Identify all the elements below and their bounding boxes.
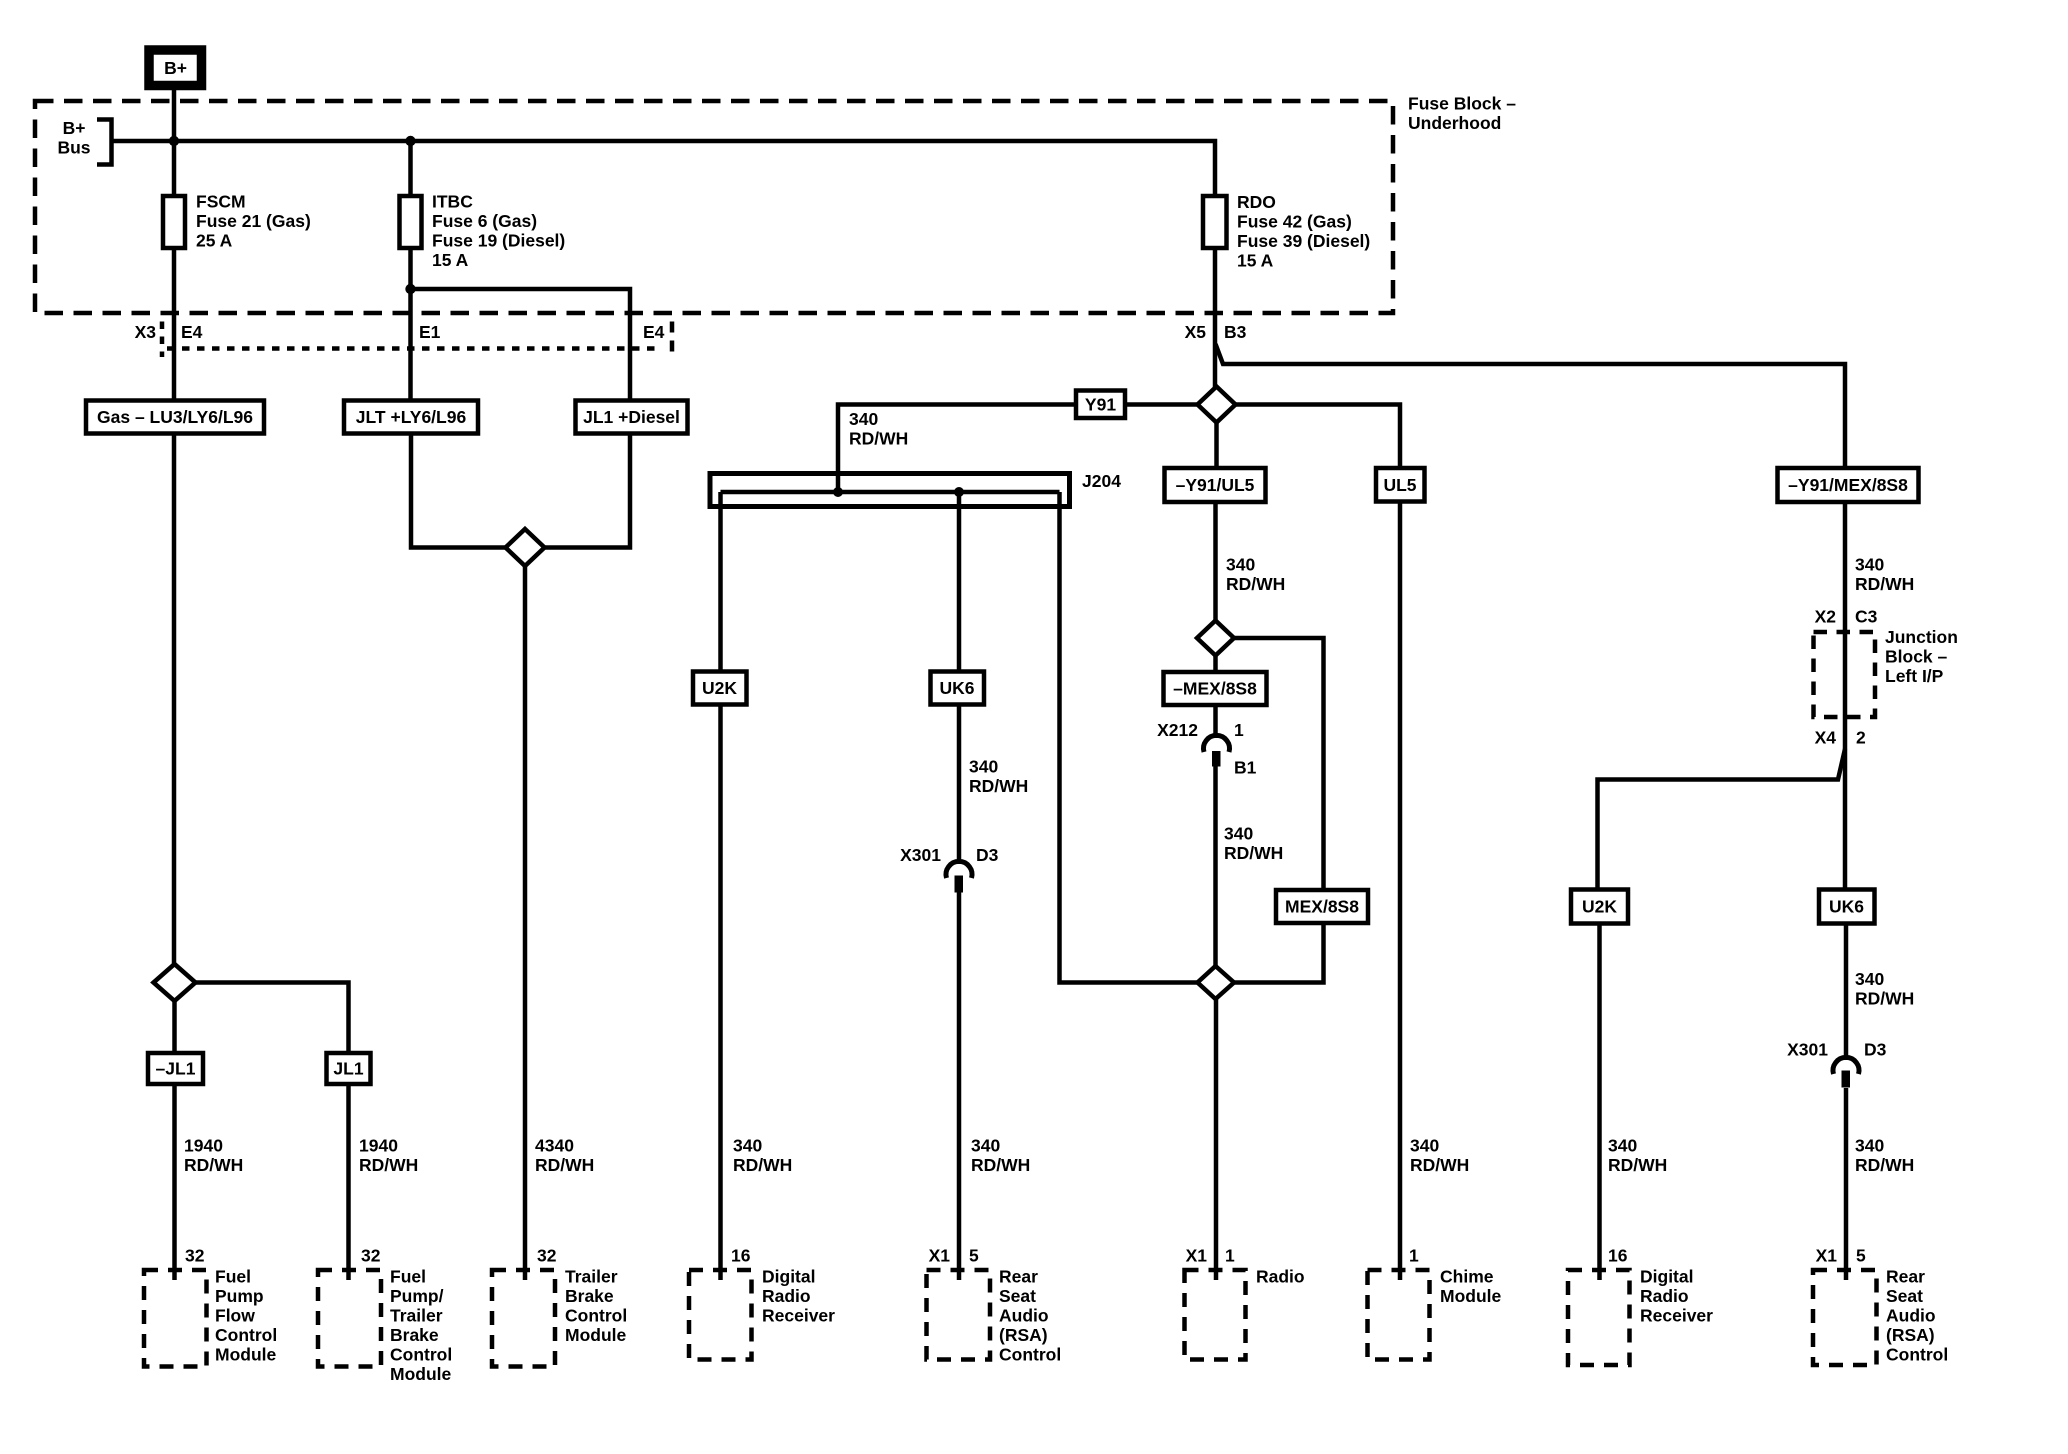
fuse block underhood enclosure (dashed) xyxy=(35,101,1393,313)
label 340 RD/WH xyxy=(1855,555,1914,595)
svg-text:Control: Control xyxy=(999,1345,1061,1365)
module Trailer Brake Control Module (dashed) xyxy=(492,1270,555,1367)
svg-text:Rear: Rear xyxy=(999,1267,1038,1287)
label 1940 RD/WH xyxy=(184,1136,243,1176)
label 4340 RD/WH xyxy=(535,1136,594,1176)
svg-text:Junction: Junction xyxy=(1885,627,1958,647)
splice diamond (trailer) xyxy=(506,529,545,566)
svg-text:RD/WH: RD/WH xyxy=(1855,989,1914,1009)
option label JL1 xyxy=(327,1053,371,1084)
svg-text:32: 32 xyxy=(185,1246,205,1266)
svg-text:Digital: Digital xyxy=(762,1267,815,1287)
wire S2 to -MEX/8S8 xyxy=(1213,656,1218,673)
splice diamond S3 xyxy=(1198,966,1235,999)
junction block - left I/P (dashed) xyxy=(1814,632,1876,717)
wire S4 to JL1 xyxy=(196,983,349,1054)
wire X301 to Rear Seat Audio control xyxy=(1844,1088,1849,1280)
svg-text:15 A: 15 A xyxy=(432,250,469,270)
module Digital Radio Receiver (dashed) xyxy=(1568,1270,1630,1365)
svg-text:Radio: Radio xyxy=(1640,1286,1689,1306)
wire JLT option to trailer splice xyxy=(411,434,506,548)
svg-text:Flow: Flow xyxy=(215,1306,255,1326)
label Trailer Brake Control Module xyxy=(565,1267,627,1346)
svg-text:JL1: JL1 xyxy=(333,1059,363,1079)
svg-text:340: 340 xyxy=(1410,1136,1439,1156)
fuse ITBC Fuse 6/19 15 A xyxy=(400,196,422,248)
svg-text:Seat: Seat xyxy=(999,1286,1036,1306)
wire branch X4 pin 2 to U2K xyxy=(1598,749,1846,890)
label Fuel Pump Flow Control Module xyxy=(215,1267,277,1365)
svg-text:RD/WH: RD/WH xyxy=(1226,574,1285,594)
option label U2K xyxy=(1571,890,1628,924)
svg-text:Module: Module xyxy=(390,1364,452,1384)
wire S2 to MEX/8S8 branch xyxy=(1234,638,1324,890)
svg-text:340: 340 xyxy=(971,1136,1000,1156)
svg-text:Fuse 19 (Diesel): Fuse 19 (Diesel) xyxy=(432,231,565,251)
label Junction Block - Left I/P xyxy=(1885,627,1958,686)
wire S4 to -JL1 xyxy=(172,1001,177,1053)
svg-text:Left I/P: Left I/P xyxy=(1885,666,1944,686)
junction dot xyxy=(169,136,179,146)
svg-text:–Y91/MEX/8S8: –Y91/MEX/8S8 xyxy=(1788,475,1908,495)
svg-text:340: 340 xyxy=(1608,1136,1637,1156)
wire U2K to Digital Radio Receiver xyxy=(718,705,723,1281)
svg-text:25 A: 25 A xyxy=(196,231,233,251)
label FSCM Fuse 21 (Gas) 25 A xyxy=(196,192,311,251)
wire branch to JL1 diesel option xyxy=(411,289,631,401)
svg-text:340: 340 xyxy=(969,757,998,777)
svg-text:–Y91/UL5: –Y91/UL5 xyxy=(1176,475,1255,495)
svg-text:Rear: Rear xyxy=(1886,1267,1925,1287)
label 340 RD/WH xyxy=(1224,824,1283,864)
svg-text:Pump/: Pump/ xyxy=(390,1286,444,1306)
svg-text:RD/WH: RD/WH xyxy=(849,429,908,449)
svg-text:–MEX/8S8: –MEX/8S8 xyxy=(1173,679,1257,699)
wire branch X5/B3 to -Y91/MEX/8S8 xyxy=(1216,344,1846,468)
svg-text:340: 340 xyxy=(1224,824,1253,844)
svg-text:RD/WH: RD/WH xyxy=(535,1155,594,1175)
svg-text:RDO: RDO xyxy=(1237,192,1276,212)
wire bus to ITBC fuse xyxy=(408,141,413,196)
svg-text:Chime: Chime xyxy=(1440,1267,1494,1287)
label Fuel Pump/Trailer Brake Control Module xyxy=(390,1267,452,1385)
svg-text:X1: X1 xyxy=(1186,1246,1208,1266)
svg-text:E1: E1 xyxy=(419,322,441,342)
svg-text:Fuel: Fuel xyxy=(215,1267,251,1287)
in-line connector X212 pin 1 / B1 xyxy=(1204,735,1230,766)
option label U2K xyxy=(693,672,747,705)
option label UL5 xyxy=(1376,468,1425,502)
splice pack J204 xyxy=(710,471,1121,507)
svg-text:Module: Module xyxy=(215,1345,277,1365)
svg-text:340: 340 xyxy=(849,409,878,429)
splice diamond S2 xyxy=(1197,621,1234,656)
wire J204 to UK6 xyxy=(957,492,962,672)
wire S1 to Y91 xyxy=(1125,402,1198,407)
svg-text:32: 32 xyxy=(537,1246,557,1266)
in-line connector X301 pin D3 xyxy=(946,861,972,892)
wire X301 to Rear Seat Audio control xyxy=(957,893,962,1281)
svg-text:Bus: Bus xyxy=(57,138,90,158)
label Digital Radio Receiver xyxy=(762,1267,835,1326)
module Digital Radio Receiver (dashed) xyxy=(689,1270,752,1360)
option label UK6 xyxy=(931,672,985,705)
svg-text:X3: X3 xyxy=(135,322,157,342)
wire -Y91/UL5 to splice S2 xyxy=(1213,502,1218,621)
fuse RDO Fuse 42/39 15 A xyxy=(1203,196,1227,248)
svg-text:Y91: Y91 xyxy=(1085,395,1116,415)
option label Gas - LU3/LY6/L96 xyxy=(86,401,264,434)
svg-text:340: 340 xyxy=(1226,555,1255,575)
svg-text:Gas – LU3/LY6/L96: Gas – LU3/LY6/L96 xyxy=(97,407,253,427)
svg-text:16: 16 xyxy=(731,1246,751,1266)
label 340 RD/WH xyxy=(733,1136,792,1176)
svg-text:Seat: Seat xyxy=(1886,1286,1923,1306)
svg-text:Control: Control xyxy=(390,1345,452,1365)
svg-text:340: 340 xyxy=(1855,1136,1884,1156)
option label -Y91/MEX/8S8 xyxy=(1778,468,1919,502)
svg-text:JL1 +Diesel: JL1 +Diesel xyxy=(583,407,680,427)
label Digital Radio Receiver xyxy=(1640,1267,1713,1326)
svg-text:RD/WH: RD/WH xyxy=(1608,1155,1667,1175)
svg-text:X301: X301 xyxy=(900,845,941,865)
wire S1 to UL5 xyxy=(1236,405,1401,469)
svg-text:RD/WH: RD/WH xyxy=(184,1155,243,1175)
svg-text:Block –: Block – xyxy=(1885,647,1948,667)
label 340 RD/WH xyxy=(849,409,908,449)
wire S1 to -Y91/UL5 xyxy=(1214,423,1219,469)
wire -JL1 to Fuel Pump Flow Control Module xyxy=(172,1084,177,1280)
wire S3 to Radio xyxy=(1214,999,1219,1280)
option label JL1 +Diesel xyxy=(576,401,688,434)
module Chime Module (dashed) xyxy=(1368,1270,1430,1360)
label Chime Module xyxy=(1440,1267,1502,1307)
splice diamond S4 xyxy=(154,964,196,1001)
svg-text:Module: Module xyxy=(565,1325,627,1345)
module Fuel Pump/Trailer Brake Control Module (dashed) xyxy=(318,1270,381,1367)
svg-text:B3: B3 xyxy=(1224,322,1247,342)
svg-text:Digital: Digital xyxy=(1640,1267,1693,1287)
svg-text:B+: B+ xyxy=(63,118,86,138)
wire B+ bus xyxy=(112,141,1216,196)
svg-text:RD/WH: RD/WH xyxy=(969,776,1028,796)
wire UL5 to Chime Module xyxy=(1398,502,1403,1281)
svg-text:Module: Module xyxy=(1440,1286,1502,1306)
wire B+ terminal to FSCM fuse xyxy=(172,88,177,196)
module Rear Seat Audio (RSA) Control (dashed) xyxy=(1813,1270,1877,1365)
svg-text:1940: 1940 xyxy=(184,1136,223,1156)
wire U2K to Digital Radio Receiver xyxy=(1597,924,1602,1281)
svg-text:Radio: Radio xyxy=(1256,1267,1305,1287)
svg-text:J204: J204 xyxy=(1082,471,1121,491)
svg-text:1940: 1940 xyxy=(359,1136,398,1156)
svg-text:X5: X5 xyxy=(1185,322,1207,342)
label 340 RD/WH xyxy=(1855,969,1914,1009)
fuse FSCM Fuse 21 (Gas) 25 A xyxy=(163,196,185,248)
svg-text:1: 1 xyxy=(1234,720,1244,740)
wire J204 to splice S3 xyxy=(1060,492,1198,983)
node B+ Bus xyxy=(57,118,111,165)
wire -Y91/MEX/8S8 through junction block to UK6 xyxy=(1843,502,1848,890)
label 340 RD/WH xyxy=(1226,555,1285,595)
svg-text:4340: 4340 xyxy=(535,1136,574,1156)
option label -Y91/UL5 xyxy=(1165,468,1266,502)
label RDO Fuse 42 (Gas) Fuse 39 (Diesel) 15 A xyxy=(1237,192,1370,271)
option label MEX/8S8 xyxy=(1276,890,1368,923)
svg-text:Control: Control xyxy=(565,1306,627,1326)
svg-text:RD/WH: RD/WH xyxy=(1410,1155,1469,1175)
svg-text:16: 16 xyxy=(1608,1246,1628,1266)
svg-text:U2K: U2K xyxy=(1582,897,1617,917)
power terminal B+ xyxy=(149,50,202,86)
svg-text:D3: D3 xyxy=(976,845,999,865)
module Fuel Pump Flow Control Module (dashed) xyxy=(144,1270,207,1367)
svg-text:340: 340 xyxy=(1855,555,1884,575)
svg-text:MEX/8S8: MEX/8S8 xyxy=(1285,897,1359,917)
svg-text:RD/WH: RD/WH xyxy=(733,1155,792,1175)
svg-text:U2K: U2K xyxy=(702,678,737,698)
wire -MEX/8S8 to connector X212 xyxy=(1213,705,1218,738)
label 340 RD/WH xyxy=(971,1136,1030,1176)
label 340 RD/WH xyxy=(969,757,1028,797)
label 340 RD/WH xyxy=(1608,1136,1667,1176)
label 1940 RD/WH xyxy=(359,1136,418,1176)
svg-text:UL5: UL5 xyxy=(1383,475,1416,495)
svg-text:Trailer: Trailer xyxy=(565,1267,618,1287)
splice diamond S1 xyxy=(1198,387,1236,423)
svg-text:E4: E4 xyxy=(643,322,665,342)
label Rear Seat Audio (RSA) Control xyxy=(1886,1267,1948,1365)
svg-text:Audio: Audio xyxy=(999,1306,1049,1326)
label 340 RD/WH xyxy=(1855,1136,1914,1176)
wire J204 to U2K xyxy=(718,492,723,672)
svg-text:RD/WH: RD/WH xyxy=(359,1155,418,1175)
svg-text:Fuse 42 (Gas): Fuse 42 (Gas) xyxy=(1237,212,1352,232)
svg-text:Brake: Brake xyxy=(565,1286,614,1306)
svg-text:RD/WH: RD/WH xyxy=(1224,843,1283,863)
svg-text:(RSA): (RSA) xyxy=(999,1325,1048,1345)
wire trailer splice to Trailer Brake Control Module xyxy=(523,566,528,1280)
junction dot xyxy=(405,284,415,294)
wire JL1 diesel option to trailer splice xyxy=(545,434,631,548)
junction dot xyxy=(954,487,964,497)
label 340 RD/WH xyxy=(1410,1136,1469,1176)
wire Y91 to splice pack J204 xyxy=(838,405,1076,493)
svg-text:JLT +LY6/L96: JLT +LY6/L96 xyxy=(356,407,467,427)
svg-text:D3: D3 xyxy=(1864,1040,1887,1060)
svg-text:ITBC: ITBC xyxy=(432,192,473,212)
svg-text:Fuse Block –: Fuse Block – xyxy=(1408,94,1516,114)
svg-text:X301: X301 xyxy=(1787,1040,1828,1060)
svg-text:RD/WH: RD/WH xyxy=(971,1155,1030,1175)
svg-text:Audio: Audio xyxy=(1886,1306,1936,1326)
module Rear Seat Audio (RSA) Control (dashed) xyxy=(927,1270,991,1360)
svg-text:Trailer: Trailer xyxy=(390,1306,443,1326)
option label JLT +LY6/L96 xyxy=(344,401,478,434)
svg-text:B1: B1 xyxy=(1234,758,1257,778)
svg-text:UK6: UK6 xyxy=(939,678,974,698)
label ITBC Fuse 6 (Gas) Fuse 19 (Diesel) 15 A xyxy=(432,192,565,271)
svg-text:Fuel: Fuel xyxy=(390,1267,426,1287)
in-line connector X301 pin D3 xyxy=(1833,1057,1859,1087)
wire MEX/8S8 to splice S3 xyxy=(1234,923,1324,983)
wire JL1 to Fuel Pump/Trailer Brake Control Module xyxy=(346,1084,351,1280)
wire X212 to splice S3 xyxy=(1213,767,1218,967)
option label -JL1 xyxy=(148,1053,203,1084)
svg-text:X1: X1 xyxy=(1816,1246,1838,1266)
svg-text:UK6: UK6 xyxy=(1829,897,1864,917)
svg-text:Receiver: Receiver xyxy=(762,1306,835,1326)
svg-text:15 A: 15 A xyxy=(1237,251,1274,271)
svg-text:X1: X1 xyxy=(929,1246,951,1266)
svg-text:E4: E4 xyxy=(181,322,203,342)
svg-text:5: 5 xyxy=(969,1246,979,1266)
wire RDO fuse to splice S1 xyxy=(1213,248,1218,387)
label Rear Seat Audio (RSA) Control xyxy=(999,1267,1061,1365)
svg-text:2: 2 xyxy=(1856,728,1866,748)
svg-text:B+: B+ xyxy=(164,58,187,78)
connector strip X3 (dotted) xyxy=(162,322,672,358)
svg-text:32: 32 xyxy=(361,1246,381,1266)
wire UK6 to connector X301 xyxy=(957,705,962,865)
svg-text:Underhood: Underhood xyxy=(1408,113,1501,133)
svg-text:X4: X4 xyxy=(1815,728,1837,748)
svg-text:Radio: Radio xyxy=(762,1286,811,1306)
svg-text:5: 5 xyxy=(1856,1246,1866,1266)
svg-text:–JL1: –JL1 xyxy=(156,1059,196,1079)
junction dot xyxy=(405,136,415,146)
wire ITBC fuse to JLT option xyxy=(408,248,413,401)
svg-text:(RSA): (RSA) xyxy=(1886,1325,1935,1345)
svg-text:C3: C3 xyxy=(1855,607,1878,627)
wire Gas option to splice S4 xyxy=(172,434,177,966)
svg-text:1: 1 xyxy=(1225,1246,1235,1266)
svg-text:Brake: Brake xyxy=(390,1325,439,1345)
svg-text:RD/WH: RD/WH xyxy=(1855,1155,1914,1175)
svg-text:1: 1 xyxy=(1409,1246,1419,1266)
module Radio (dashed) xyxy=(1185,1270,1246,1360)
svg-text:Fuse 39 (Diesel): Fuse 39 (Diesel) xyxy=(1237,231,1370,251)
svg-text:Receiver: Receiver xyxy=(1640,1306,1713,1326)
wire UK6 to connector X301 xyxy=(1844,924,1849,1061)
junction dot xyxy=(833,487,843,497)
svg-text:340: 340 xyxy=(733,1136,762,1156)
svg-text:Control: Control xyxy=(215,1325,277,1345)
option label Y91 xyxy=(1076,391,1125,419)
svg-text:Pump: Pump xyxy=(215,1286,264,1306)
svg-text:Fuse 6 (Gas): Fuse 6 (Gas) xyxy=(432,211,537,231)
svg-text:Control: Control xyxy=(1886,1345,1948,1365)
svg-text:340: 340 xyxy=(1855,969,1884,989)
option label -MEX/8S8 xyxy=(1164,672,1267,705)
svg-text:X212: X212 xyxy=(1157,720,1198,740)
svg-text:Fuse 21 (Gas): Fuse 21 (Gas) xyxy=(196,211,311,231)
svg-text:FSCM: FSCM xyxy=(196,192,246,212)
svg-text:X2: X2 xyxy=(1815,607,1837,627)
svg-text:RD/WH: RD/WH xyxy=(1855,574,1914,594)
label Fuse Block - Underhood xyxy=(1408,94,1516,134)
option label UK6 xyxy=(1819,890,1875,924)
wire FSCM fuse to Gas option xyxy=(172,248,177,401)
